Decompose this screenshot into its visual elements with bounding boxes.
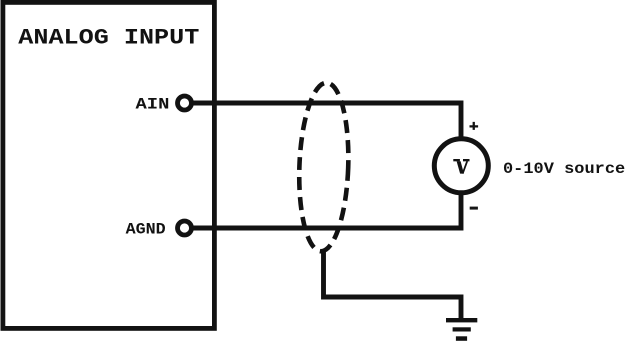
svg-text:0-10V source: 0-10V source [503,160,625,178]
svg-text:AIN: AIN [136,95,170,113]
wire AIN from terminal to voltmeter + [190,103,461,140]
wire AGND from terminal to voltmeter - [190,192,461,228]
svg-text:AGND: AGND [126,221,166,239]
module box ANALOG INPUT [3,2,215,328]
plus polarity mark [470,122,479,130]
ground symbol [446,318,477,341]
shield ellipse (cable shield, dashed) [296,82,351,252]
voltmeter V1 letter V [453,159,469,174]
wire shield drain to ground [324,250,462,318]
terminal AIN [178,96,192,110]
minus polarity mark [470,207,478,210]
voltmeter V1 body [434,139,488,193]
terminal AGND [178,221,192,235]
svg-text:ANALOG INPUT: ANALOG INPUT [18,26,199,51]
